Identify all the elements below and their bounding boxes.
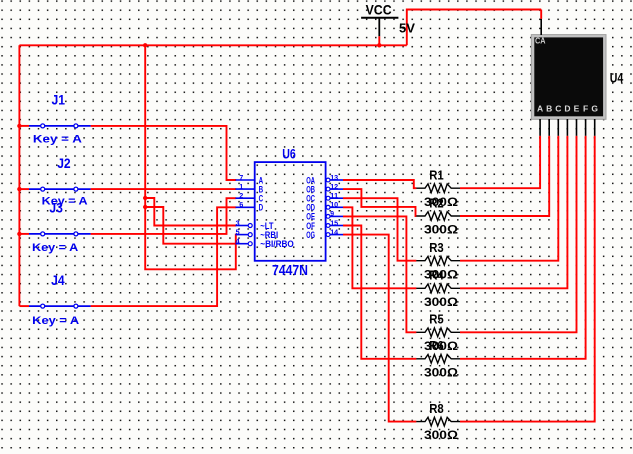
svg-text:CA: CA: [535, 36, 546, 46]
svg-text:1: 1: [239, 182, 243, 191]
svg-text:E: E: [574, 104, 580, 114]
svg-text:J1: J1: [52, 93, 66, 108]
svg-text:J2: J2: [57, 156, 70, 171]
svg-text:300Ω: 300Ω: [424, 430, 458, 442]
svg-text:300Ω: 300Ω: [424, 297, 458, 309]
svg-text:7447N: 7447N: [272, 262, 308, 279]
svg-text:R5: R5: [429, 313, 444, 327]
svg-text:C: C: [555, 104, 561, 114]
svg-text:5V: 5V: [399, 20, 415, 35]
svg-text:R8: R8: [429, 402, 444, 416]
svg-text:~BI/RBO: ~BI/RBO: [260, 239, 294, 249]
svg-text:U6: U6: [282, 146, 296, 162]
svg-text:VCC: VCC: [366, 2, 392, 17]
svg-text:OG: OG: [306, 230, 315, 240]
svg-text:3: 3: [236, 218, 240, 227]
svg-text:R2: R2: [429, 196, 444, 210]
svg-text:12: 12: [330, 182, 338, 191]
svg-text:7: 7: [239, 173, 243, 182]
svg-text:14: 14: [330, 227, 338, 236]
svg-text:Key = A: Key = A: [33, 133, 82, 145]
svg-text:R4: R4: [429, 269, 444, 283]
svg-text:D: D: [564, 104, 570, 114]
svg-text:G: G: [591, 104, 598, 114]
svg-text:J3: J3: [49, 201, 63, 216]
svg-text:5: 5: [236, 227, 240, 236]
svg-text:R1: R1: [429, 169, 444, 183]
svg-text:300Ω: 300Ω: [424, 367, 458, 379]
svg-text:F: F: [583, 104, 588, 114]
svg-text:4: 4: [236, 237, 240, 246]
svg-text:11: 11: [330, 191, 338, 200]
svg-text:2: 2: [239, 191, 243, 200]
svg-text:Key = A: Key = A: [32, 315, 79, 327]
svg-text:300Ω: 300Ω: [424, 225, 458, 237]
svg-text:R6: R6: [429, 339, 444, 353]
svg-text:B: B: [546, 104, 552, 114]
svg-text:J4: J4: [51, 273, 65, 288]
svg-text:13: 13: [330, 173, 338, 182]
svg-text:Key = A: Key = A: [32, 242, 78, 254]
svg-text:R3: R3: [429, 241, 444, 255]
svg-text:10: 10: [330, 200, 338, 209]
svg-text:D: D: [259, 203, 264, 213]
svg-text:9: 9: [330, 209, 334, 218]
svg-text:15: 15: [330, 218, 338, 227]
svg-text:U4: U4: [610, 69, 624, 85]
svg-text:6: 6: [239, 200, 243, 209]
svg-text:A: A: [537, 104, 543, 114]
